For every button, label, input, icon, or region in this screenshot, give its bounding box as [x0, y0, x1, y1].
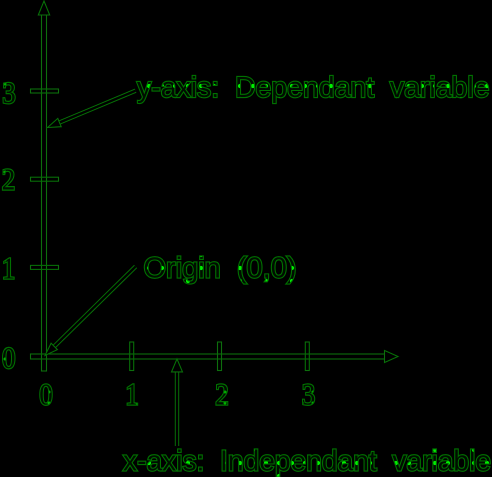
arrow to origin (from Origin label)	[45, 267, 136, 356]
svg-text:3: 3	[302, 377, 316, 412]
x-axis digit 1	[125, 377, 139, 412]
arrow to x-axis (from x-axis label)	[172, 359, 183, 446]
svg-text:Origin (0,0): Origin (0,0)	[144, 253, 297, 285]
x tick 2	[218, 342, 222, 371]
x-axis digit 0	[39, 377, 53, 412]
svg-text:1: 1	[125, 377, 139, 412]
svg-text:x-axis: Independant variable: x-axis: Independant variable	[123, 446, 491, 477]
y tick 2	[31, 177, 59, 181]
x-axis digit 2	[215, 377, 229, 412]
svg-text:2: 2	[215, 377, 229, 412]
svg-text:0: 0	[39, 377, 53, 412]
x-axis shaft	[31, 354, 386, 359]
y-axis digit 2	[2, 161, 16, 196]
x tick 1	[130, 342, 134, 371]
x-axis digit 3	[302, 377, 316, 412]
y-axis digit 0	[2, 340, 16, 375]
y-axis digit 3	[2, 75, 16, 110]
x-axis arrowhead	[385, 351, 399, 363]
label: y-axis Dependant variable	[137, 72, 490, 104]
label: x-axis Independant variable	[123, 446, 491, 477]
svg-text:3: 3	[2, 75, 16, 110]
x tick 3	[305, 342, 309, 371]
svg-text:1: 1	[2, 251, 16, 286]
y tick 3	[31, 89, 59, 93]
svg-text:0: 0	[2, 340, 16, 375]
y-axis arrowhead	[38, 1, 49, 15]
y-axis digit 1	[2, 251, 16, 286]
y-axis shaft	[42, 15, 47, 372]
y tick 1	[31, 265, 59, 269]
svg-text:2: 2	[2, 161, 16, 196]
arrow to y-axis (from y-axis label)	[48, 91, 136, 128]
label: Origin (0,0)	[144, 253, 297, 285]
svg-text:y-axis: Dependant variable: y-axis: Dependant variable	[137, 72, 490, 104]
